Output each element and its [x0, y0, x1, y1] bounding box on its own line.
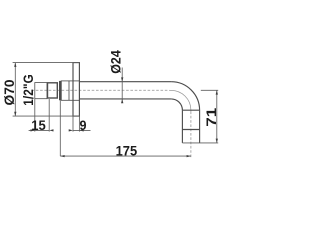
svg-text:1/2"G: 1/2"G	[20, 74, 36, 106]
svg-text:71: 71	[203, 108, 219, 127]
svg-text:15: 15	[31, 117, 46, 133]
svg-text:Ø24: Ø24	[107, 50, 123, 74]
svg-text:Ø70: Ø70	[1, 79, 17, 105]
svg-text:9: 9	[80, 117, 87, 133]
svg-text:175: 175	[116, 142, 138, 158]
